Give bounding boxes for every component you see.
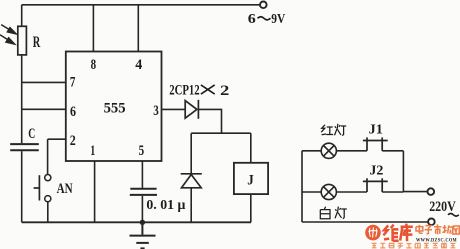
svg-text:5: 5 (139, 143, 145, 159)
wire pin 6 to R-C junction (22, 108, 66, 110)
label red-lamp (hong deng) (321, 124, 346, 136)
wire top lamp branch left stub (302, 150, 321, 152)
node junction dot at 0.01u/ground (140, 220, 145, 225)
wire C bottom to ground rail (21, 151, 23, 222)
wire J1 to right rail (382, 150, 403, 152)
capacitor C plates (10, 143, 39, 145)
wire lamp branch left rail (301, 151, 303, 222)
pushbutton AN (34, 175, 51, 202)
wire pin 5 lead (141, 161, 143, 188)
watermark slogan marks (372, 243, 456, 248)
wire AN bottom lead to ground rail (47, 202, 49, 223)
watermark wei-ku characters (383, 224, 412, 242)
svg-text:6: 6 (70, 104, 76, 120)
capacitor 0.01u plates (130, 188, 156, 190)
wire relay J bottom lead to ground rail (250, 194, 252, 222)
svg-text:7: 7 (70, 74, 76, 90)
wire to 220V terminal 2 (302, 221, 428, 223)
svg-text:555: 555 (104, 100, 126, 116)
svg-text:4: 4 (135, 57, 142, 73)
wire pin 7 to R-C junction (22, 81, 66, 83)
svg-text:WWW.DZSC.COM: WWW.DZSC.COM (416, 238, 457, 244)
relay J box (234, 163, 268, 194)
svg-text:2: 2 (70, 133, 76, 149)
svg-text:J2: J2 (369, 163, 383, 178)
svg-text:2CP12: 2CP12 (169, 82, 200, 98)
wire pin 2 (48, 138, 66, 140)
wire 0.01u cap to ground rail (141, 196, 143, 222)
wire to 220V terminal 1 (403, 191, 427, 193)
svg-text:1: 1 (90, 143, 95, 159)
wire bottom lamp branch to J2 (336, 191, 367, 193)
svg-text:R: R (33, 34, 41, 51)
svg-text:8: 8 (91, 57, 97, 73)
svg-text:6: 6 (248, 11, 256, 26)
terminal 220V line 1 (428, 188, 435, 195)
wire D1 cathode to corner (198, 109, 221, 133)
contact J1 (363, 137, 388, 150)
label 2CP12x2 (169, 82, 229, 98)
wire node between D2 and relay J (191, 132, 251, 134)
photoresistor R body (18, 26, 27, 55)
label ~ under 220V (448, 214, 459, 217)
lamp white HL2 (321, 184, 336, 199)
light arrows on photoresistor (0, 25, 16, 44)
svg-text:J: J (247, 173, 254, 189)
watermark dianzi-shichang-wang characters (416, 224, 459, 234)
terminal 220V line 2 (428, 219, 435, 226)
wire pin 1 lead to ground rail (94, 161, 96, 222)
wire J2 to right rail (382, 191, 403, 193)
contact J2 (363, 178, 388, 192)
wire top lamp branch to J1 (336, 150, 367, 152)
svg-text:AN: AN (57, 181, 73, 197)
svg-text:220V: 220V (429, 199, 456, 215)
lamp red HL1 (321, 143, 336, 158)
wire right rail (402, 151, 404, 192)
wire pin 2 drop to button AN (47, 139, 49, 174)
label 6~9V (248, 11, 286, 26)
wire R top lead (21, 5, 23, 27)
wire top supply rail (22, 4, 260, 6)
svg-text:9V: 9V (271, 11, 285, 26)
wire relay J top lead (250, 133, 252, 163)
supply terminal 6-9V (260, 2, 267, 9)
wire D2 bottom lead to ground rail (190, 188, 192, 223)
svg-text:J1: J1 (369, 122, 383, 137)
svg-text:C: C (28, 126, 35, 142)
svg-text:0. 01 μ: 0. 01 μ (146, 197, 185, 212)
watermark logo circle (365, 225, 381, 241)
wire D2 top lead (190, 133, 192, 173)
svg-text:2: 2 (220, 83, 229, 99)
diode D2 flyback (181, 174, 202, 188)
wire R bottom lead down to capacitor C (21, 55, 23, 143)
wire pin 4 lead to supply (137, 5, 139, 52)
ground symbol (130, 222, 156, 248)
wire pin 8 lead to supply (92, 5, 94, 52)
wire bottom ground rail (22, 221, 251, 223)
diode D1 2CP12 (185, 100, 198, 119)
svg-text:3: 3 (153, 103, 159, 119)
label white-lamp (bai deng) (320, 207, 347, 219)
IC 555 box U1 (66, 52, 162, 162)
wire pin 3 output (162, 108, 186, 110)
wire bottom lamp branch left stub (302, 191, 321, 193)
